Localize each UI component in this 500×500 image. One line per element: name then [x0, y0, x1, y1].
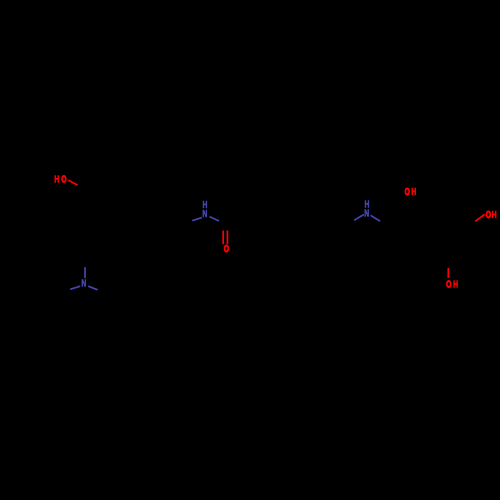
bond N-CH3 right half-bond — [88, 286, 97, 290]
svg-text:H: H — [492, 209, 497, 221]
bond N-CH3 left half-bond — [70, 286, 80, 289]
svg-text:H: H — [453, 278, 458, 290]
bond C-N left half-bond at right amine — [354, 215, 364, 221]
bond C-O vertical half-bond above bottom OH — [447, 268, 449, 278]
bond O-C half-bond from phenol O — [68, 180, 77, 185]
bond N-C right half-bond at right amine — [371, 215, 381, 221]
svg-text:H: H — [411, 185, 416, 197]
bond N-C(=O) right half-bond at amide N — [210, 217, 219, 221]
svg-text:O: O — [224, 243, 230, 255]
carbonyl C=O double bond half (right line) — [226, 231, 228, 245]
bond C-O half-bond to right-edge OH — [475, 214, 484, 221]
svg-text:O: O — [405, 185, 411, 197]
bond C-N left half-bond at amide N — [192, 218, 202, 221]
svg-text:N: N — [202, 208, 207, 220]
svg-text:O: O — [486, 209, 492, 221]
bond C-N vertical half-bond above amine N — [84, 267, 86, 278]
svg-text:N: N — [81, 277, 86, 289]
svg-text:N: N — [364, 207, 369, 219]
svg-text:O: O — [446, 278, 452, 290]
svg-text:O: O — [61, 173, 67, 185]
carbonyl C=O double bond half (left line) — [222, 231, 224, 245]
svg-text:H: H — [54, 173, 59, 185]
